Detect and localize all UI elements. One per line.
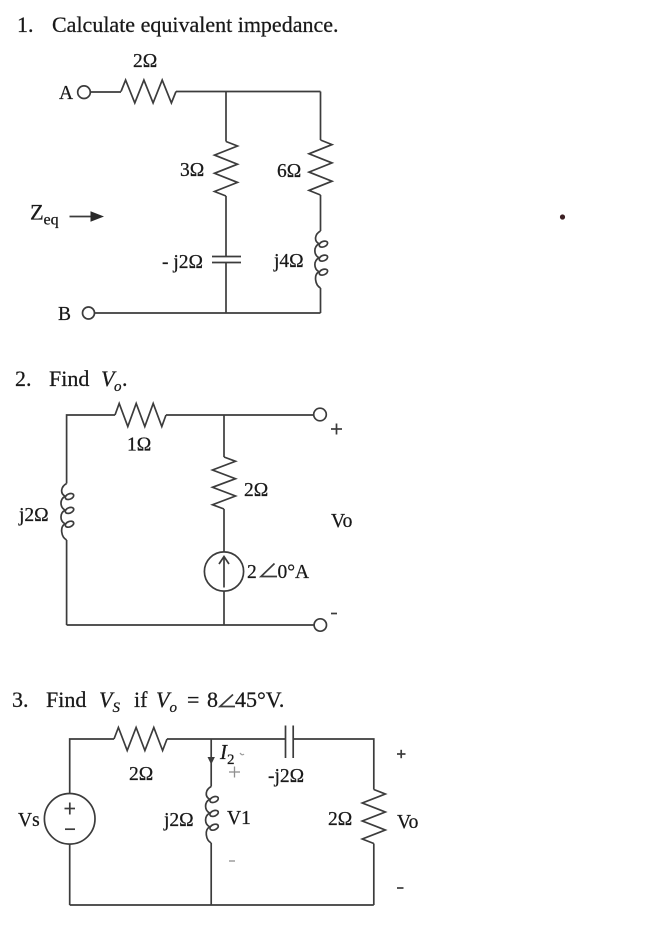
svg-text:B: B xyxy=(58,304,71,325)
stray red dot xyxy=(560,214,565,219)
wire 6ohm to inductor xyxy=(320,195,322,231)
Zeq arrow xyxy=(70,211,105,222)
minus sign bottom right xyxy=(331,613,337,615)
capacitor -j2ohm xyxy=(212,257,241,263)
minus sign V1 xyxy=(229,860,235,862)
svg-text:0°A: 0°A xyxy=(278,562,310,583)
svg-text:S: S xyxy=(113,700,121,716)
wire 1ohm to right terminal xyxy=(166,414,314,416)
resistor 6ohm vertical xyxy=(309,140,332,195)
wire right branch upper xyxy=(320,92,322,141)
label I2 xyxy=(219,740,235,768)
svg-text:2Ω: 2Ω xyxy=(129,764,153,785)
wire left bottom xyxy=(66,540,68,625)
inductor j2ohm left xyxy=(61,484,75,541)
terminal circle bottom right xyxy=(314,619,326,631)
bottom wire B to right xyxy=(95,312,321,314)
wire middle branch top xyxy=(223,415,225,457)
capacitor -j2ohm p3 xyxy=(286,726,294,759)
wire top to right branch xyxy=(176,91,321,93)
middle branch wire with I2 arrow xyxy=(208,739,215,787)
svg-text:j2Ω: j2Ω xyxy=(163,810,194,831)
wire resistor to bottom right p3 xyxy=(373,844,375,906)
plus sign V1 xyxy=(229,767,240,778)
plus sign top right xyxy=(331,424,342,435)
wire A to resistor xyxy=(91,91,122,93)
svg-text:Vo: Vo xyxy=(397,812,418,833)
label 2 angle 0 A xyxy=(247,562,309,583)
wire 3ohm to capacitor xyxy=(225,196,227,256)
svg-text:3Ω: 3Ω xyxy=(180,160,204,181)
inductor j2ohm p3 xyxy=(206,787,220,844)
svg-text:Find: Find xyxy=(46,687,86,712)
svg-text:2Ω: 2Ω xyxy=(244,480,268,501)
svg-text:-j2Ω: -j2Ω xyxy=(268,766,304,787)
inductor j4ohm xyxy=(315,231,329,288)
plus sign Vo p3 xyxy=(397,750,406,758)
svg-text:if: if xyxy=(134,687,148,712)
svg-text:2Ω: 2Ω xyxy=(133,51,157,72)
svg-text:j4Ω: j4Ω xyxy=(273,251,304,272)
svg-text:eq: eq xyxy=(44,212,59,229)
svg-text:- j2Ω: - j2Ω xyxy=(162,252,203,273)
resistor 2ohm vertical p3 xyxy=(362,790,385,844)
svg-text:Vo: Vo xyxy=(331,511,352,532)
stray mark near I2 xyxy=(240,753,244,755)
node A terminal xyxy=(59,83,90,104)
svg-text:V1: V1 xyxy=(227,808,251,829)
bottom wire p2 xyxy=(67,624,314,626)
voltage source Vs xyxy=(44,794,95,845)
svg-text:1Ω: 1Ω xyxy=(127,435,151,456)
svg-text:.: . xyxy=(122,366,128,391)
terminal + circle top right xyxy=(314,408,327,421)
angle symbol in title 3 xyxy=(220,695,235,707)
current source 2/0A xyxy=(204,552,243,591)
svg-text:2.: 2. xyxy=(15,366,32,391)
svg-text:o: o xyxy=(170,700,178,716)
wire capacitor to bottom xyxy=(225,263,227,314)
svg-text:Find: Find xyxy=(49,366,89,391)
wire source to bottom xyxy=(223,591,225,625)
svg-text:8: 8 xyxy=(207,687,218,712)
top-left corner wire p3 xyxy=(70,739,114,794)
svg-text:45°V.: 45°V. xyxy=(235,687,284,712)
svg-text:o: o xyxy=(114,379,122,395)
svg-text:j2Ω: j2Ω xyxy=(18,505,49,526)
wire inductor to bottom p3 xyxy=(210,843,212,905)
svg-text:6Ω: 6Ω xyxy=(277,161,301,182)
svg-text:2: 2 xyxy=(227,752,235,768)
node B terminal xyxy=(58,304,95,325)
svg-text:Calculate equivalent impedance: Calculate equivalent impedance. xyxy=(52,12,338,37)
svg-text:2: 2 xyxy=(247,562,257,583)
wire 2ohm to source xyxy=(223,509,225,552)
wire top-left corner to 1ohm xyxy=(67,415,115,484)
Zeq label xyxy=(30,200,59,229)
svg-text:3.: 3. xyxy=(12,687,29,712)
svg-text:Z: Z xyxy=(30,200,44,225)
svg-text:Vs: Vs xyxy=(18,810,40,831)
svg-text:1.: 1. xyxy=(17,12,34,37)
resistor 2ohm horizontal p3 xyxy=(114,728,167,751)
svg-text:2Ω: 2Ω xyxy=(328,809,352,830)
resistor 1ohm horizontal xyxy=(115,404,166,427)
wire capacitor to right corner xyxy=(293,739,374,790)
minus sign Vo p3 xyxy=(397,887,404,889)
resistor R 2ohm horizontal xyxy=(121,80,176,103)
resistor 3ohm vertical xyxy=(215,142,238,197)
svg-text:A: A xyxy=(59,83,73,104)
wire middle branch upper xyxy=(225,92,227,142)
wire resistor to capacitor xyxy=(167,738,286,740)
resistor 2ohm vertical xyxy=(213,457,236,509)
svg-text:=: = xyxy=(187,687,199,712)
wire source to bottom p3 xyxy=(69,844,71,905)
bottom wire p3 xyxy=(70,904,374,906)
wire inductor to bottom xyxy=(320,288,322,313)
